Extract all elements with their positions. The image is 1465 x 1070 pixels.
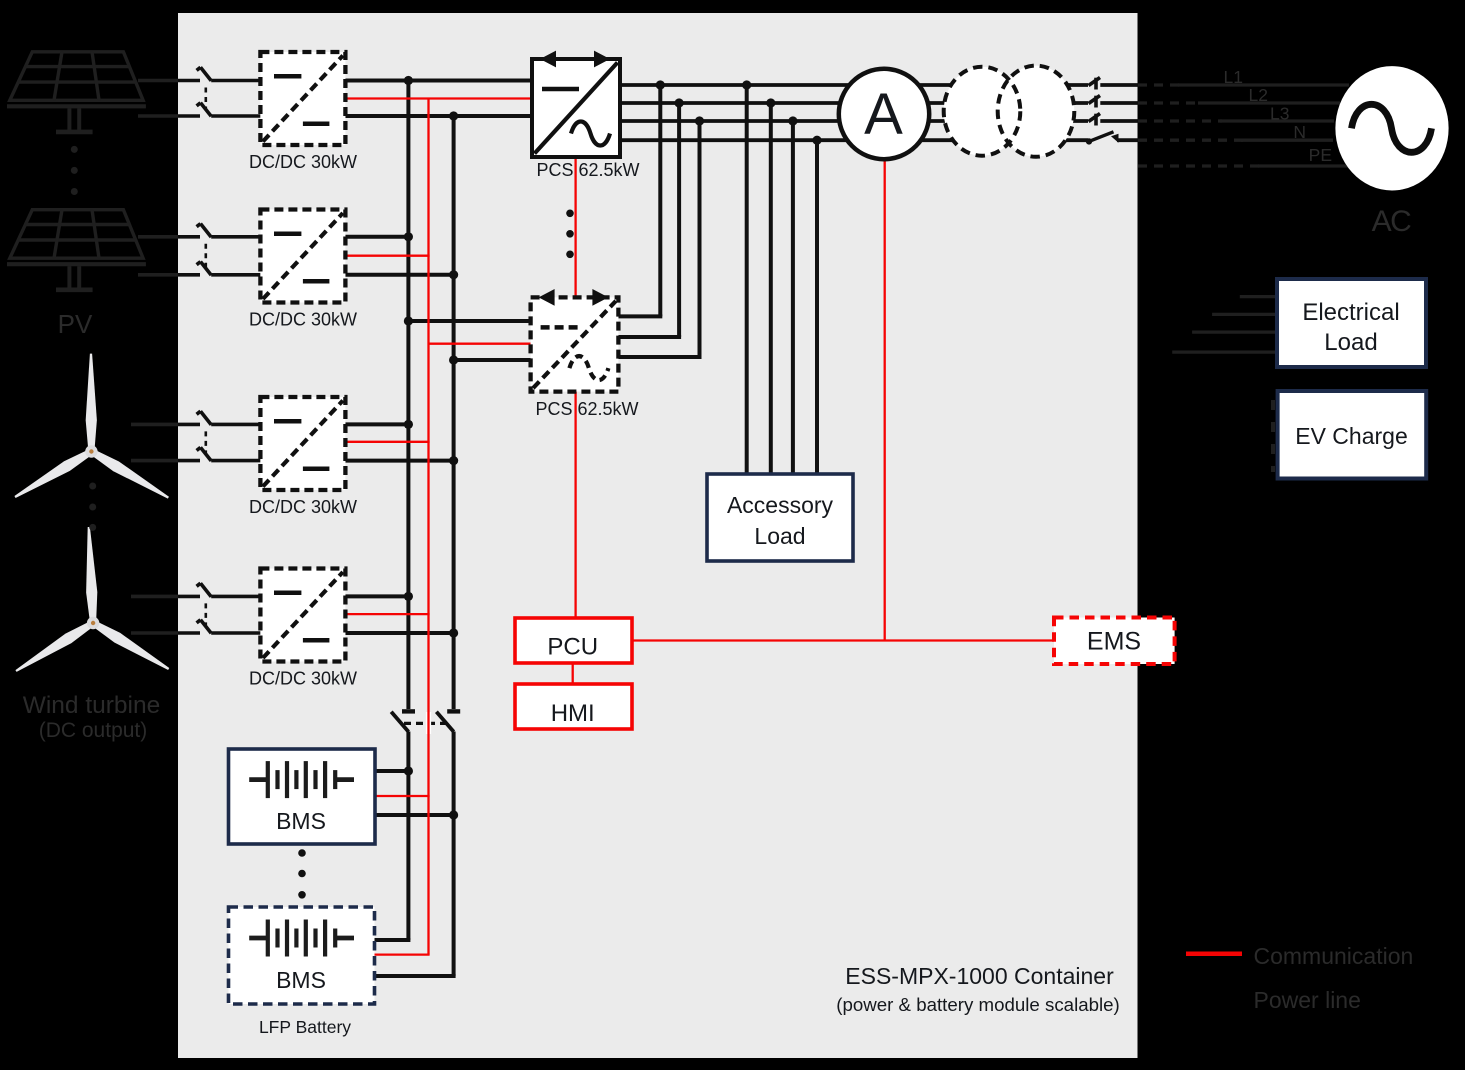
svg-text:BMS: BMS xyxy=(276,808,326,834)
svg-text:N: N xyxy=(1293,122,1306,142)
svg-text:PCU: PCU xyxy=(547,634,598,661)
svg-text:DC/DC 30kW: DC/DC 30kW xyxy=(249,497,357,517)
svg-text:HMI: HMI xyxy=(551,700,595,727)
svg-text:AC: AC xyxy=(1372,205,1412,238)
svg-text:PCS 62.5kW: PCS 62.5kW xyxy=(535,399,638,419)
svg-text:PE: PE xyxy=(1309,145,1332,165)
svg-text:Load: Load xyxy=(754,523,805,549)
svg-text:(power & battery module scalab: (power & battery module scalable) xyxy=(836,994,1120,1015)
svg-text:PV: PV xyxy=(58,309,93,339)
svg-text:EV Charge: EV Charge xyxy=(1295,423,1408,449)
svg-text:L1: L1 xyxy=(1224,67,1243,87)
svg-text:(DC output): (DC output) xyxy=(39,719,148,742)
svg-text:Communication: Communication xyxy=(1254,943,1414,969)
svg-text:Electrical: Electrical xyxy=(1302,299,1399,326)
svg-text:Load: Load xyxy=(1324,329,1377,356)
svg-text:EMS: EMS xyxy=(1087,628,1141,656)
svg-text:BMS: BMS xyxy=(276,967,326,993)
svg-text:DC/DC 30kW: DC/DC 30kW xyxy=(249,669,357,689)
svg-text:Wind turbine: Wind turbine xyxy=(23,692,161,719)
svg-text:L2: L2 xyxy=(1249,85,1268,105)
svg-text:DC/DC 30kW: DC/DC 30kW xyxy=(249,152,357,172)
svg-text:LFP Battery: LFP Battery xyxy=(259,1017,351,1037)
svg-text:Accessory: Accessory xyxy=(727,492,834,518)
svg-text:DC/DC 30kW: DC/DC 30kW xyxy=(249,310,357,330)
svg-text:A: A xyxy=(864,82,903,147)
svg-text:ESS-MPX-1000 Container: ESS-MPX-1000 Container xyxy=(845,963,1114,989)
svg-text:L3: L3 xyxy=(1270,104,1289,124)
svg-text:Power line: Power line xyxy=(1254,987,1361,1013)
svg-text:PCS 62.5kW: PCS 62.5kW xyxy=(536,160,639,180)
